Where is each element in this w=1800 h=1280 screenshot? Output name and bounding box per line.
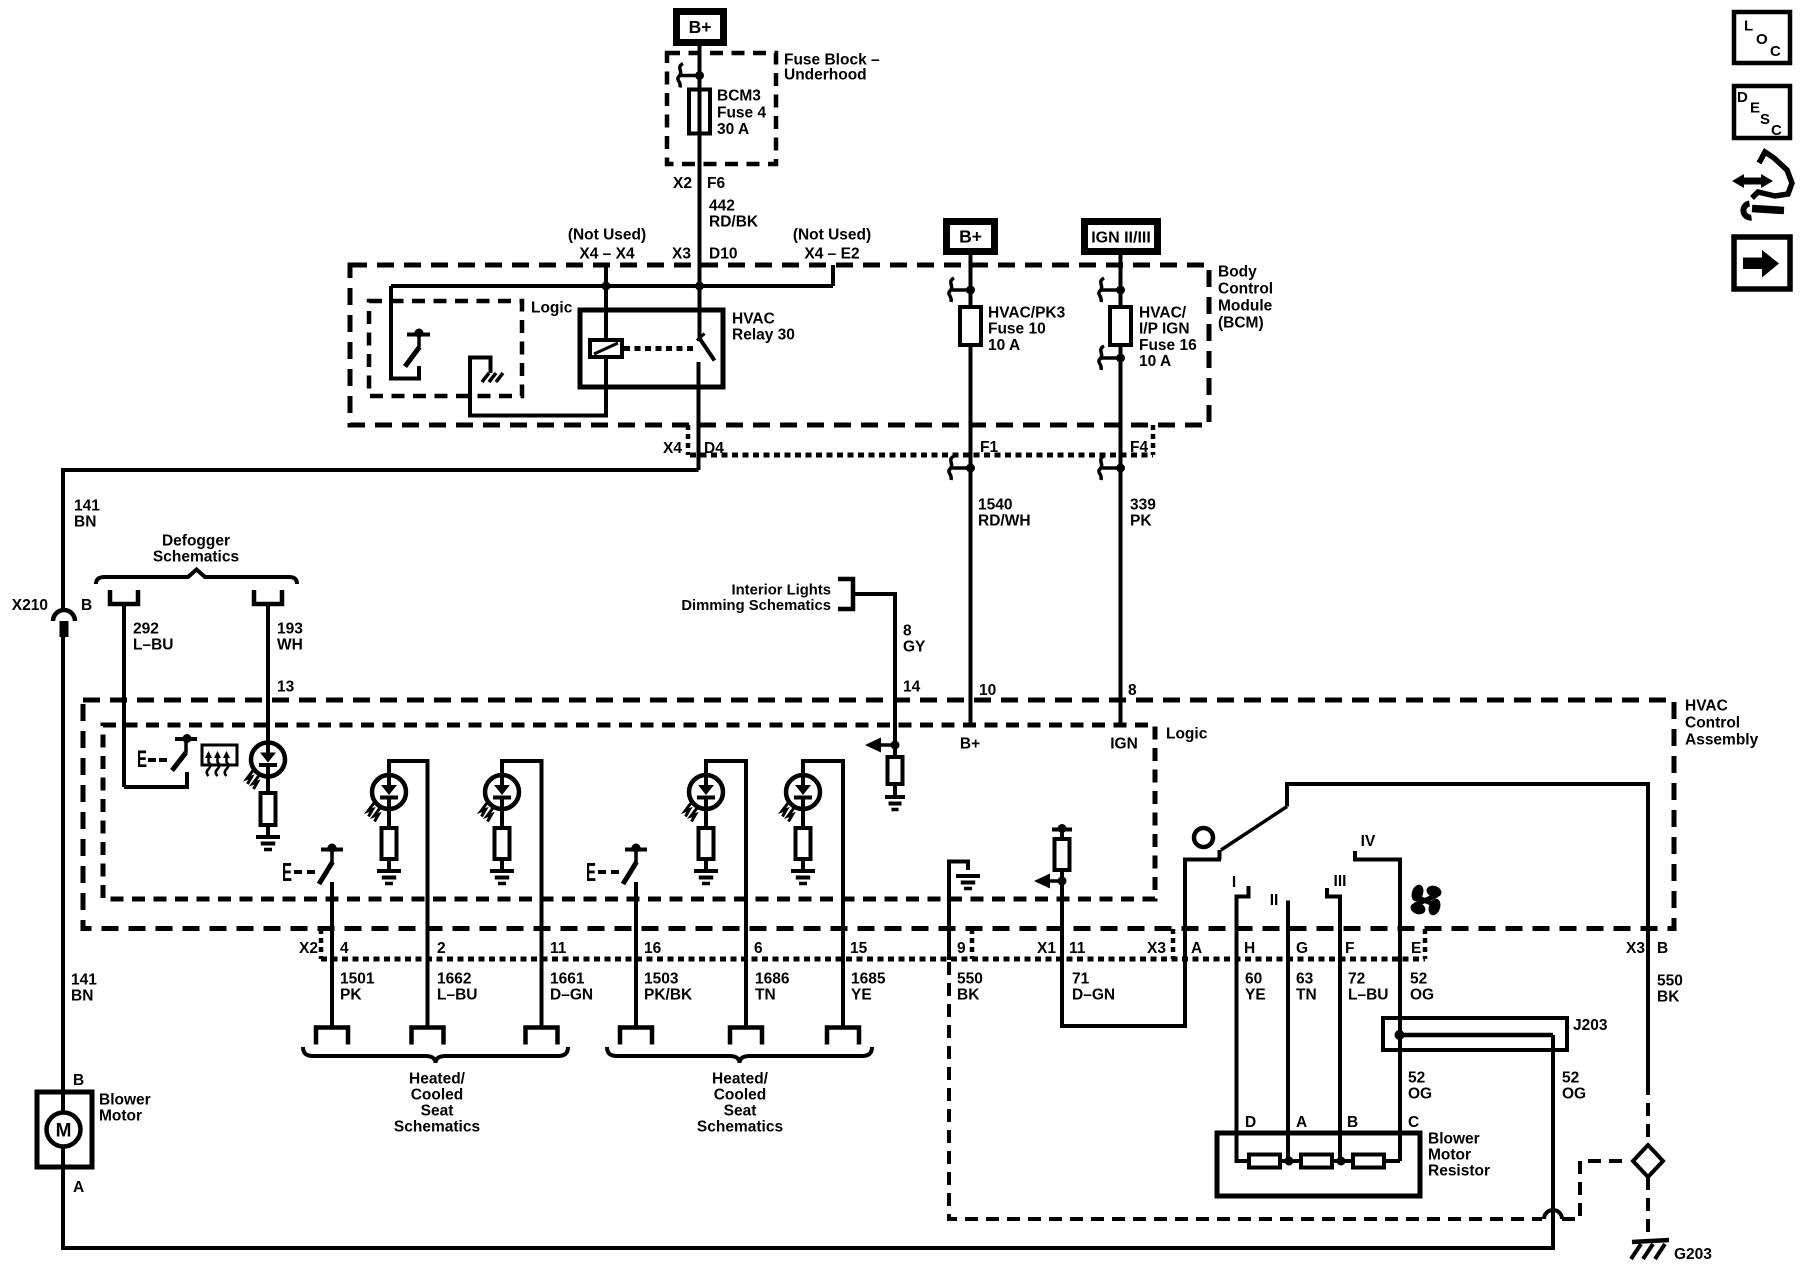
wire relay coil feed: [604, 286, 608, 340]
terminal to seat schematic at x=746: [730, 1028, 762, 1045]
connector hook below fuse 16: [1101, 356, 1121, 360]
svg-text:X2: X2: [299, 940, 318, 957]
svg-text:TN: TN: [755, 987, 776, 1004]
svg-text:L: L: [1744, 18, 1753, 35]
wire 292 L-BU defogger switch feed: [122, 604, 126, 787]
brace defogger schematics: [96, 570, 297, 585]
svg-text:52: 52: [1408, 1070, 1425, 1087]
svg-text:S: S: [1760, 111, 1770, 128]
svg-text:Blower: Blower: [1428, 1131, 1480, 1148]
terminal to seat schematic at x=427.5: [412, 1028, 444, 1045]
svg-text:III: III: [1334, 873, 1347, 890]
svg-text:BK: BK: [1657, 989, 1680, 1006]
svg-text:141: 141: [74, 498, 100, 515]
ground LED seat right B: [801, 859, 805, 871]
svg-text:550: 550: [957, 971, 983, 988]
svg-text:HVAC: HVAC: [1685, 698, 1728, 715]
svg-text:Underhood: Underhood: [784, 67, 867, 84]
splice J203 bus wire: [1400, 1033, 1554, 1038]
wire 1540 RD/WH from fuse 10 to HVAC control B+: [969, 345, 973, 725]
blower motor box: [37, 1092, 92, 1167]
svg-text:B: B: [1347, 1114, 1358, 1131]
svg-text:RD/BK: RD/BK: [709, 214, 759, 231]
wire motor ground 52 OG return: [63, 1035, 1553, 1248]
svg-text:Heated/: Heated/: [712, 1071, 769, 1088]
svg-text:60: 60: [1245, 971, 1262, 988]
wire resistor output to C: [1384, 1159, 1400, 1163]
svg-text:B: B: [1657, 940, 1668, 957]
ground LED seat right A: [704, 859, 708, 871]
svg-text:IV: IV: [1361, 833, 1376, 850]
resistor LED seat right A: [704, 809, 708, 828]
svg-text:G: G: [1296, 940, 1308, 957]
ground G203: [1632, 1240, 1669, 1242]
logic box inside BCM dashed outline: [369, 301, 522, 396]
icon LOC box: [1734, 12, 1790, 63]
svg-text:(Not Used): (Not Used): [568, 227, 646, 244]
terminal to seat schematic at x=636: [620, 1028, 652, 1045]
svg-text:E: E: [282, 857, 292, 887]
wire hop over 52 OG: [1544, 1210, 1562, 1219]
svg-text:Logic: Logic: [1166, 726, 1208, 743]
svg-text:X3: X3: [672, 246, 691, 263]
svg-text:13: 13: [277, 679, 295, 696]
svg-text:Fuse 4: Fuse 4: [717, 104, 766, 121]
fan switch rotary indicator O: [1194, 828, 1213, 847]
wire 8 GY dimming signal: [853, 594, 895, 745]
terminal 292 L-BU to defogger schematic: [110, 590, 138, 604]
svg-text:1661: 1661: [550, 971, 585, 988]
fuse HVAC/ I/P IGN Fuse 16 10A: [1110, 307, 1131, 345]
icon forward arrow box: [1734, 237, 1790, 289]
svg-text:BK: BK: [957, 987, 980, 1004]
ground rake inside logic box: [482, 373, 489, 382]
svg-text:52: 52: [1410, 971, 1427, 988]
wire 141 BN from relay to blower motor: [63, 470, 699, 610]
svg-text:71: 71: [1072, 971, 1090, 988]
svg-text:193: 193: [277, 621, 303, 638]
svg-text:11: 11: [550, 940, 567, 957]
dashed ground wire 550 BK to splice: [949, 962, 1542, 1219]
wire logic switch riser: [391, 286, 419, 379]
fan icon: [1410, 883, 1426, 903]
resistor defogger indicator: [266, 777, 270, 794]
svg-text:I: I: [1232, 874, 1236, 891]
wire from B+ to HVAC/PK3 fuse: [969, 255, 973, 307]
resistor dimmer load: [893, 745, 897, 757]
brace heated/cooled seat left: [303, 1047, 568, 1063]
svg-text:1501: 1501: [340, 971, 375, 988]
svg-text:YE: YE: [851, 987, 872, 1004]
svg-text:Fuse 16: Fuse 16: [1139, 337, 1197, 354]
svg-text:Logic: Logic: [531, 300, 573, 317]
brace heated/cooled seat right: [607, 1047, 872, 1063]
dashed ground wire to splice diamond: [1562, 1161, 1629, 1219]
fan switch contact I: [1237, 886, 1249, 930]
svg-text:X3: X3: [1626, 940, 1645, 957]
svg-text:B: B: [81, 597, 92, 614]
svg-text:D–GN: D–GN: [550, 987, 593, 1004]
wire from IGN to fuse 16: [1119, 255, 1123, 307]
svg-text:Blower: Blower: [99, 1092, 151, 1109]
svg-text:1685: 1685: [851, 971, 886, 988]
svg-text:Relay 30: Relay 30: [732, 327, 795, 344]
svg-text:72: 72: [1348, 971, 1365, 988]
power symbol B+ (battery feed, top): [677, 12, 724, 43]
svg-text:I/P IGN: I/P IGN: [1139, 321, 1190, 338]
svg-text:J203: J203: [1573, 1017, 1608, 1034]
svg-text:PK: PK: [340, 987, 362, 1004]
relay link dashed line: [624, 346, 695, 351]
logic box inside HVAC control dashed outline: [103, 725, 1155, 899]
svg-text:Interior Lights: Interior Lights: [732, 583, 831, 599]
bracket to dimming schematics: [838, 579, 853, 609]
svg-text:10: 10: [979, 682, 996, 699]
svg-text:HVAC: HVAC: [732, 311, 775, 328]
svg-text:Cooled: Cooled: [411, 1087, 464, 1104]
svg-text:1686: 1686: [755, 971, 790, 988]
svg-text:14: 14: [903, 679, 921, 696]
svg-text:Body: Body: [1218, 264, 1257, 281]
svg-text:8: 8: [1128, 682, 1137, 699]
motor M circle: [61, 1092, 65, 1113]
dashed wire splice to G203: [1646, 1177, 1650, 1238]
svg-text:Seat: Seat: [421, 1103, 454, 1120]
wire and node A junction: [1280, 1159, 1301, 1163]
svg-text:F: F: [1345, 940, 1354, 957]
ground dimmer resistor: [893, 784, 897, 797]
svg-text:11: 11: [1069, 940, 1086, 957]
svg-text:339: 339: [1130, 497, 1156, 514]
wire 339 PK from fuse 16 to HVAC control IGN: [1119, 345, 1123, 725]
wire fan switch feed from X3-B: [1287, 784, 1648, 1082]
module box Body Control Module (BCM) dashed outline: [350, 265, 1209, 425]
svg-text:B+: B+: [960, 736, 980, 753]
svg-text:C: C: [1771, 122, 1782, 139]
LED seat left B (pin 11): [485, 775, 519, 809]
connector hook at F4: [1101, 466, 1121, 470]
module box HVAC Control Assembly dashed outline: [83, 700, 1674, 929]
svg-text:BCM3: BCM3: [717, 88, 761, 105]
node X4-E2 stub (not used): [831, 265, 835, 286]
LED defogger indicator: [251, 743, 285, 777]
LED seat left A (pin 2): [372, 775, 406, 809]
svg-text:PK/BK: PK/BK: [644, 987, 693, 1004]
resistor LED seat right B: [801, 809, 805, 828]
svg-text:Schematics: Schematics: [153, 549, 239, 566]
svg-text:BN: BN: [74, 514, 96, 531]
connector hook at fuse block entry: [680, 74, 700, 78]
svg-text:141: 141: [71, 972, 97, 989]
svg-text:Defogger: Defogger: [162, 533, 230, 550]
icon DESC box: [1734, 86, 1790, 138]
wire relay coil to logic ground: [470, 357, 606, 416]
svg-text:C: C: [1408, 1114, 1419, 1131]
resistor element 3: [1353, 1155, 1384, 1168]
svg-text:M: M: [56, 1121, 72, 1142]
svg-text:PK: PK: [1130, 513, 1152, 530]
svg-text:A: A: [1191, 940, 1202, 957]
svg-text:WH: WH: [277, 637, 303, 654]
svg-text:D10: D10: [709, 246, 737, 263]
svg-text:X210: X210: [12, 597, 48, 614]
fan switch contact II: [1286, 901, 1290, 931]
wire 1503 PK/BK to X2-16: [634, 882, 638, 1028]
fuse BCM3 Fuse 4 30A: [689, 90, 710, 134]
svg-text:F6: F6: [707, 175, 725, 192]
terminal to seat schematic at x=332: [316, 1028, 348, 1045]
wire 72 L-BU X3-F to resistor B: [1338, 897, 1342, 1162]
connector hook above fuse 10: [951, 288, 971, 292]
wire 141 BN below X210: [61, 637, 65, 1092]
connector row under BCM dotted line: [686, 425, 691, 455]
power symbol IGN II/III: [1085, 222, 1158, 252]
svg-text:TN: TN: [1296, 987, 1317, 1004]
svg-text:Motor: Motor: [1428, 1147, 1471, 1164]
svg-text:63: 63: [1296, 971, 1314, 988]
svg-text:Fuse 10: Fuse 10: [988, 321, 1046, 338]
svg-text:IGN: IGN: [1110, 736, 1138, 753]
svg-text:D: D: [1245, 1114, 1256, 1131]
svg-text:D–GN: D–GN: [1072, 987, 1115, 1004]
splice J203 box: [1383, 1018, 1567, 1050]
svg-text:(Not Used): (Not Used): [793, 227, 871, 244]
svg-text:Heated/: Heated/: [409, 1071, 466, 1088]
node X4-X4 stub (not used): [604, 265, 608, 286]
svg-text:E: E: [137, 746, 147, 773]
svg-text:B+: B+: [959, 227, 982, 247]
svg-text:Schematics: Schematics: [697, 1119, 783, 1136]
svg-text:L–BU: L–BU: [133, 637, 173, 654]
svg-text:4: 4: [340, 940, 349, 957]
connector row X2/X1/X3 dotted line: [319, 929, 324, 959]
svg-text:OG: OG: [1562, 1086, 1586, 1103]
svg-text:YE: YE: [1245, 987, 1266, 1004]
svg-text:30 A: 30 A: [717, 121, 749, 138]
svg-text:IGN II/III: IGN II/III: [1091, 230, 1151, 247]
svg-text:II: II: [1270, 892, 1279, 909]
svg-text:X3: X3: [1147, 940, 1166, 957]
svg-text:442: 442: [709, 198, 735, 215]
wire defogger switch to 292 L-BU: [124, 772, 187, 787]
svg-text:1503: 1503: [644, 971, 679, 988]
power symbol B+ (BCM feed): [947, 222, 995, 252]
wire relay output to D4: [697, 362, 701, 470]
svg-text:15: 15: [850, 940, 868, 957]
resistor element 1: [1249, 1155, 1280, 1168]
svg-text:B+: B+: [689, 17, 712, 37]
ground logic (pin 9): [949, 862, 968, 961]
splice diamond: [1633, 1145, 1663, 1177]
svg-text:D: D: [1737, 89, 1748, 106]
svg-text:X4: X4: [663, 440, 682, 457]
fan switch common and blade: [1183, 858, 1221, 862]
svg-text:1540: 1540: [978, 497, 1012, 514]
relay contact blade: [700, 339, 715, 361]
resistor LED seat left B: [500, 809, 504, 828]
fuse HVAC/PK3 Fuse 10 10A: [960, 307, 981, 345]
svg-text:A: A: [1296, 1114, 1307, 1131]
ground LED seat left B: [500, 859, 504, 871]
svg-text:RD/WH: RD/WH: [978, 513, 1031, 530]
wire 60 YE X3-H to resistor D: [1237, 897, 1250, 1162]
wire 52 OG X3-E to splice J203 and resistor C: [1398, 860, 1402, 1162]
svg-text:8: 8: [903, 623, 912, 640]
ground defogger indicator: [266, 825, 270, 837]
svg-text:1662: 1662: [437, 971, 471, 988]
wire 71 D-GN loop X1-11 to X3-A: [1062, 860, 1185, 1026]
svg-text:Resistor: Resistor: [1428, 1163, 1490, 1180]
wire BCM internal bus at node D10: [391, 284, 833, 288]
wire 442 RD/BK from B+ through BCM3 fuse to HVAC relay: [698, 46, 702, 340]
svg-text:F4: F4: [1130, 439, 1148, 456]
svg-text:OG: OG: [1408, 1086, 1432, 1103]
terminal to seat schematic at x=541.5: [526, 1028, 558, 1045]
svg-text:Control: Control: [1218, 281, 1273, 298]
relay coil: [590, 340, 622, 357]
svg-text:16: 16: [644, 940, 662, 957]
svg-text:X4 – X4: X4 – X4: [579, 246, 635, 263]
svg-text:OG: OG: [1410, 987, 1434, 1004]
svg-text:E: E: [1750, 100, 1760, 117]
wire LED to pin 15 riser: [803, 761, 843, 1028]
svg-text:Assembly: Assembly: [1685, 732, 1759, 749]
svg-text:2: 2: [437, 940, 446, 957]
svg-text:E: E: [1411, 940, 1421, 957]
wire and node B junction: [1332, 1159, 1353, 1163]
ground LED seat left A: [387, 859, 391, 871]
wire 63 TN X3-G to resistor A: [1286, 901, 1290, 1162]
resistor element 2: [1301, 1155, 1332, 1168]
svg-text:X4 – E2: X4 – E2: [804, 246, 859, 263]
svg-text:H: H: [1244, 940, 1255, 957]
wire LED to pin 2 riser: [389, 761, 428, 1028]
svg-text:Cooled: Cooled: [714, 1087, 767, 1104]
wire 193 WH defogger indicator feed: [266, 604, 270, 743]
connector hook above fuse 16: [1101, 288, 1121, 292]
wire LED to pin 11 riser: [502, 761, 542, 1028]
dimmer input arrow: [865, 738, 881, 753]
svg-text:9: 9: [957, 940, 966, 957]
svg-text:52: 52: [1562, 1070, 1579, 1087]
icon wiring route arrows and wrench: [1732, 174, 1744, 188]
svg-text:Seat: Seat: [724, 1103, 757, 1120]
svg-text:E: E: [586, 857, 596, 887]
svg-text:HVAC/PK3: HVAC/PK3: [988, 305, 1066, 322]
svg-text:6: 6: [754, 940, 763, 957]
svg-text:G203: G203: [1674, 1246, 1712, 1263]
svg-text:10 A: 10 A: [988, 337, 1020, 354]
blower motor resistor box: [1217, 1133, 1420, 1196]
svg-text:F1: F1: [980, 439, 998, 456]
svg-text:(BCM): (BCM): [1218, 315, 1264, 332]
LED seat right B (pin 15): [786, 775, 820, 809]
svg-text:Motor: Motor: [99, 1108, 142, 1125]
logic driver switch (BCM): [407, 333, 430, 337]
LED seat right A (pin 6): [689, 775, 723, 809]
svg-text:Dimming Schematics: Dimming Schematics: [681, 598, 831, 614]
svg-text:X2: X2: [673, 175, 692, 192]
wire 1501 PK to X2-4: [330, 882, 334, 1028]
svg-text:B: B: [73, 1072, 84, 1089]
svg-text:Schematics: Schematics: [394, 1119, 480, 1136]
svg-text:292: 292: [133, 621, 159, 638]
svg-text:GY: GY: [903, 639, 926, 656]
fan switch contact IV: [1355, 851, 1400, 930]
svg-text:10 A: 10 A: [1139, 353, 1171, 370]
svg-text:BN: BN: [71, 988, 93, 1005]
svg-text:HVAC/: HVAC/: [1139, 305, 1187, 322]
defogger heater grid icon: [202, 745, 237, 765]
svg-text:C: C: [1770, 43, 1781, 60]
dashed wire 550 BK below X3-B: [1646, 1082, 1650, 1146]
fan switch contact III: [1327, 888, 1340, 930]
wire LED to pin 6 riser: [706, 761, 746, 1028]
terminal to seat schematic at x=843: [827, 1028, 859, 1045]
svg-text:Control: Control: [1685, 715, 1740, 732]
svg-text:X1: X1: [1037, 940, 1056, 957]
svg-text:Module: Module: [1218, 298, 1273, 315]
resistor LED seat left A: [387, 809, 391, 828]
svg-text:O: O: [1756, 31, 1768, 48]
svg-text:L–BU: L–BU: [437, 987, 477, 1004]
arrow blower speed input: [1034, 874, 1050, 889]
connector hook at F1: [951, 466, 971, 470]
terminal 193 WH to defogger schematic: [254, 590, 282, 604]
resistor blower speed input (X1-11): [1052, 828, 1072, 832]
svg-text:L–BU: L–BU: [1348, 987, 1388, 1004]
svg-text:A: A: [73, 1179, 84, 1196]
svg-text:550: 550: [1657, 973, 1683, 990]
relay HVAC Relay 30 box: [580, 310, 723, 387]
node D10 junction: [695, 282, 704, 291]
fuse block underhood dashed box: [667, 53, 776, 164]
